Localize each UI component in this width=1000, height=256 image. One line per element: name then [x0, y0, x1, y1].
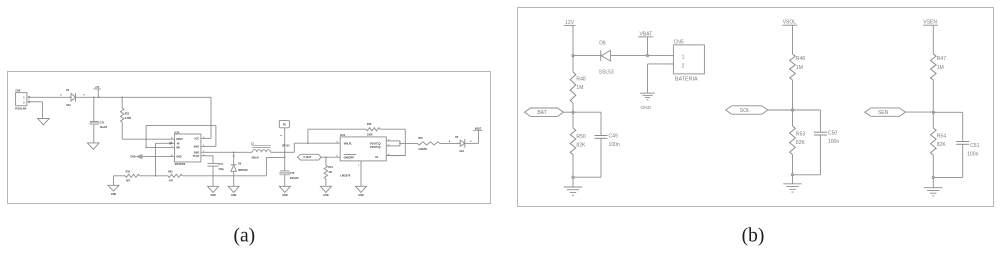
wire VCC from +rail	[210, 97, 212, 138]
svg-text:82K: 82K	[937, 142, 947, 148]
junction 12V node	[572, 54, 574, 56]
svg-text:2: 2	[23, 101, 25, 104]
junction VBAT node	[646, 54, 648, 56]
wire P5 to output node	[284, 128, 286, 171]
capacitor C50 100n	[814, 131, 827, 133]
port BAT	[525, 108, 564, 116]
svg-text:1M: 1M	[576, 85, 583, 91]
wire C51 to bottom	[962, 144, 964, 177]
svg-text:R32: R32	[126, 171, 131, 174]
svg-text:R46: R46	[796, 56, 806, 62]
connector CN5	[671, 55, 674, 57]
wire -IN	[156, 142, 175, 144]
svg-text:R54: R54	[937, 133, 947, 139]
svg-text:5: 5	[336, 156, 337, 158]
junction +5V tap	[98, 96, 100, 98]
ground under IC2	[356, 186, 367, 192]
svg-text:GND: GND	[640, 105, 651, 111]
wire L2 to output node	[271, 151, 285, 153]
junction SEN node	[932, 111, 934, 113]
diode D5	[459, 143, 461, 145]
op-amp U24 MC34063 box	[175, 134, 201, 162]
capacitor C51 100n	[956, 141, 969, 143]
diode D4	[70, 97, 72, 99]
svg-text:VCC: VCC	[194, 138, 199, 141]
resistor R46 1M	[790, 54, 796, 80]
junction VOUT join	[399, 143, 401, 145]
junction R24 tap	[325, 156, 327, 158]
svg-text:K: K	[470, 141, 472, 143]
capacitor C75	[90, 120, 99, 122]
resistor R54 82K	[932, 112, 934, 128]
resistor R35 10R/2W	[417, 142, 439, 145]
wire feedback top left	[308, 128, 366, 130]
svg-text:C49: C49	[609, 134, 619, 140]
svg-text:P.SOLAR: P.SOLAR	[15, 106, 26, 110]
ground under R24	[320, 186, 331, 192]
wire output to IC2 VIN	[285, 151, 295, 153]
svg-text:P5: P5	[283, 124, 287, 127]
resistor R22 0.25R	[121, 97, 123, 108]
svg-text:S2A: S2A	[66, 104, 71, 107]
svg-text:100n: 100n	[967, 151, 978, 157]
svg-text:S2: S2	[375, 156, 379, 159]
svg-text:12V: 12V	[565, 20, 575, 26]
svg-text:IC24: IC24	[174, 131, 180, 134]
resistor R32 4K7	[125, 174, 139, 177]
junction feedback node	[284, 157, 286, 159]
svg-text:GND: GND	[231, 194, 237, 197]
wire GND pin to arrow	[142, 156, 175, 158]
svg-text:GND: GND	[210, 194, 216, 197]
wire C-BAT to ON/OFF	[321, 156, 340, 158]
svg-text:SOL: SOL	[740, 108, 750, 114]
port SOL	[726, 106, 768, 114]
wire C75 to ground	[93, 124, 95, 142]
wire ground drop	[113, 176, 115, 185]
junction IPK node	[145, 147, 147, 149]
wire IC2 ground	[360, 161, 362, 186]
svg-text:MC34063: MC34063	[175, 163, 186, 166]
svg-text:LM2576: LM2576	[340, 174, 350, 178]
svg-text:CN8: CN8	[15, 90, 20, 93]
connector CN8	[16, 93, 27, 106]
ground under C75	[87, 143, 99, 149]
junction SOL ground node	[791, 174, 793, 176]
svg-text:1: 1	[682, 54, 685, 60]
junction BAT ground node	[572, 176, 574, 178]
wire R32 to R33	[140, 175, 169, 177]
wire CN5 pin2 to GND	[648, 63, 674, 65]
polarity tick	[280, 135, 282, 137]
svg-text:C76: C76	[218, 163, 223, 166]
junction SOL node	[791, 109, 793, 111]
wire loop left vertical	[145, 125, 147, 147]
svg-text:GND: GND	[282, 194, 288, 197]
wire SEN port to node	[905, 111, 933, 113]
resistor R47 1M	[931, 54, 937, 80]
wire VOUT stubs	[386, 140, 400, 142]
ground left of divider	[108, 185, 119, 191]
svg-text:SSL53: SSL53	[599, 70, 614, 76]
svg-text:VIN,FL: VIN,FL	[344, 142, 353, 146]
svg-text:R33: R33	[168, 171, 173, 174]
svg-text:47K: 47K	[169, 180, 174, 183]
wire SOL node to C50	[793, 109, 821, 111]
svg-text:D8: D8	[599, 41, 606, 47]
wire R35 to D5	[440, 142, 461, 144]
svg-text:R22: R22	[125, 112, 130, 115]
ground SEN earth	[932, 177, 934, 187]
svg-text:10u/25: 10u/25	[100, 126, 108, 129]
svg-text:C50: C50	[828, 130, 838, 136]
svg-text:-IN: -IN	[176, 142, 179, 145]
svg-text:DRVC: DRVC	[176, 138, 183, 141]
svg-text:1: 1	[358, 165, 359, 167]
wire R22 to DRVC	[122, 138, 174, 140]
svg-text:SEN: SEN	[878, 110, 889, 116]
wire CN8 pin2 down	[30, 101, 43, 103]
svg-text:GND: GND	[176, 156, 182, 159]
svg-text:ON/OFF: ON/OFF	[344, 155, 355, 159]
resistor R53 82K	[792, 110, 794, 126]
svg-text:(a): (a)	[233, 226, 255, 247]
resistor R24 1M	[325, 157, 327, 165]
wire BAT node to C49	[573, 111, 601, 113]
junction BAT node	[572, 111, 574, 113]
svg-text:1P-15V: 1P-15V	[282, 145, 290, 148]
ground CN5 earth	[640, 92, 655, 94]
svg-text:GND: GND	[130, 156, 136, 159]
resistor R50 82K	[572, 112, 574, 128]
svg-text:CN5: CN5	[674, 39, 684, 45]
svg-text:S2A: S2A	[459, 150, 464, 153]
ground BAT earth	[572, 177, 574, 187]
svg-text:7: 7	[171, 146, 172, 148]
junction C75 tap	[93, 96, 95, 98]
junction -IN divider	[155, 175, 157, 177]
svg-text:TCAP: TCAP	[193, 155, 200, 158]
junction diode D6 tap	[233, 151, 235, 153]
junction VIN feedback tap	[307, 142, 309, 144]
ground SOL earth	[792, 175, 794, 184]
svg-text:SWE: SWE	[194, 151, 200, 154]
svg-text:VSOL: VSOL	[783, 19, 797, 25]
svg-text:1M: 1M	[328, 171, 331, 174]
capacitor C76 470p	[208, 162, 219, 164]
svg-text:C-BAT: C-BAT	[303, 155, 312, 159]
svg-text:D5: D5	[455, 136, 459, 139]
junction SEN ground node	[932, 176, 934, 178]
svg-text:100n: 100n	[828, 139, 839, 145]
svg-text:L2: L2	[251, 143, 254, 146]
panel (a) border frame	[8, 72, 491, 204]
svg-text:D4: D4	[66, 89, 70, 92]
svg-text:IPK: IPK	[176, 146, 180, 149]
wire main +rail	[76, 96, 211, 98]
svg-text:GND: GND	[111, 193, 117, 196]
wire -IN down to divider	[155, 143, 157, 176]
svg-text:R48: R48	[576, 76, 586, 82]
panel (b) border frame	[518, 8, 994, 207]
svg-text:K: K	[84, 95, 86, 97]
wire to C75	[93, 97, 95, 121]
svg-text:R24: R24	[328, 166, 333, 169]
svg-text:R35: R35	[418, 137, 423, 140]
svg-text:1M: 1M	[937, 65, 944, 71]
ground under D6	[228, 186, 239, 192]
svg-text:100K: 100K	[367, 133, 373, 136]
svg-text:D6: D6	[238, 163, 242, 166]
junction DRVC node	[145, 138, 147, 140]
svg-text:0.25R: 0.25R	[125, 117, 132, 120]
resistor R48 1M	[572, 56, 574, 72]
svg-text:330u/25: 330u/25	[290, 177, 299, 180]
svg-text:5: 5	[171, 142, 172, 144]
svg-text:SWC: SWC	[194, 146, 200, 149]
wire loop top	[146, 124, 216, 126]
svg-text:C51: C51	[970, 143, 980, 149]
diode D8 SSL53	[601, 50, 611, 61]
svg-text:2: 2	[682, 64, 685, 70]
svg-text:R50: R50	[576, 134, 586, 140]
svg-text:470p: 470p	[218, 168, 224, 171]
resistor R36 100K	[366, 128, 380, 131]
svg-text:R36: R36	[367, 123, 372, 126]
wire R33 feedback to output	[182, 175, 266, 177]
svg-text:6: 6	[203, 137, 204, 139]
wire BAT port to node	[564, 111, 574, 113]
wire C49 to bottom	[600, 138, 602, 177]
wire C50 to bottom	[819, 135, 821, 175]
svg-text:82K: 82K	[576, 143, 586, 149]
svg-text:R47: R47	[937, 56, 947, 62]
resistor R33 47K	[168, 174, 182, 177]
ground under CN8	[38, 119, 50, 125]
svg-text:100n: 100n	[609, 142, 620, 148]
diode D6 MBR160	[233, 152, 235, 158]
ground under C76	[208, 186, 219, 192]
wire CN8 pin1 to D4	[30, 96, 70, 98]
wire SWE switch node	[201, 151, 252, 153]
regulator U22 box	[340, 137, 386, 161]
pin label ON/OFF	[344, 154, 357, 156]
svg-text:1: 1	[203, 145, 204, 147]
svg-text:A: A	[60, 94, 62, 97]
svg-text:330uH: 330uH	[251, 156, 258, 159]
wire SEN node to C51	[933, 111, 962, 113]
wire feedback up	[307, 129, 309, 143]
svg-text:1: 1	[23, 97, 25, 100]
svg-text:C75: C75	[100, 122, 105, 125]
wire left ground to R32	[114, 175, 126, 177]
wire D8 to CN5	[611, 55, 671, 57]
svg-text:82K: 82K	[796, 140, 806, 146]
wire loop right vertical to SWC	[215, 125, 217, 146]
wire SOL port to node	[768, 109, 793, 111]
port C-BAT	[298, 154, 322, 160]
svg-text:VOUT,Q: VOUT,Q	[370, 145, 382, 149]
svg-text:1M: 1M	[796, 65, 803, 71]
svg-text:C78: C78	[290, 172, 295, 175]
junction R22 tap	[121, 96, 123, 98]
wire VOUT to R35	[400, 142, 417, 144]
svg-text:10R/2W: 10R/2W	[418, 148, 427, 151]
svg-text:(b): (b)	[742, 226, 765, 247]
svg-text:4K7: 4K7	[126, 180, 131, 183]
wire feedback top right	[380, 128, 405, 130]
wire D5 to VBAT	[465, 142, 478, 144]
svg-text:MBR160: MBR160	[238, 169, 248, 172]
capacitor C49 100n	[595, 135, 608, 137]
ground arrow IC1 GND	[137, 155, 142, 159]
svg-text:GND: GND	[323, 194, 329, 197]
junction output node	[284, 151, 286, 153]
svg-text:IC22: IC22	[340, 134, 346, 137]
svg-text:8: 8	[171, 138, 172, 140]
svg-text:VSEN: VSEN	[923, 19, 937, 25]
svg-text:A: A	[449, 140, 451, 143]
wire TCAP stub	[201, 155, 213, 157]
svg-text:GND: GND	[358, 194, 364, 197]
svg-text:R53: R53	[796, 131, 806, 137]
wire IPK	[146, 146, 174, 148]
wire 12V to D8	[573, 55, 601, 57]
wire C76 to ground	[212, 166, 214, 186]
svg-text:BATERIA: BATERIA	[675, 76, 698, 82]
ground under C78	[279, 186, 290, 192]
inductor L2 330uH	[252, 150, 270, 153]
port SEN	[865, 108, 906, 116]
svg-text:BAT: BAT	[537, 110, 546, 116]
test point P5	[279, 120, 289, 127]
capacitor C78 330u/25	[280, 170, 290, 172]
wire C78 to ground	[284, 175, 286, 186]
